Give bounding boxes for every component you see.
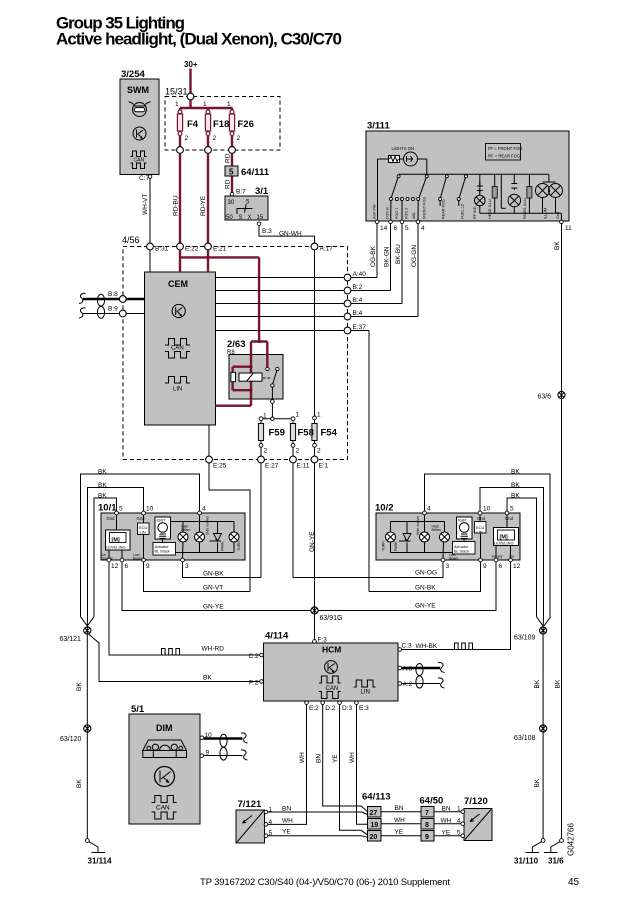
svg-text:1: 1 [227,101,231,108]
svg-text:2: 2 [237,135,241,142]
svg-text:6: 6 [394,225,398,232]
svg-text:15: 15 [257,215,264,221]
svg-text:20: 20 [370,834,378,841]
svg-text:CEM: CEM [168,279,188,289]
svg-text:LIN: LIN [361,690,370,696]
svg-text:F:3: F:3 [318,637,328,644]
svg-text:B:4: B:4 [353,297,363,304]
svg-text:5/1: 5/1 [131,704,145,715]
svg-text:TURN: TURN [382,541,386,551]
svg-text:BK: BK [76,682,83,691]
svg-text:WH: WH [394,817,405,824]
svg-text:BK: BK [534,778,541,787]
svg-text:31/110: 31/110 [514,857,539,866]
svg-text:YE: YE [282,829,291,836]
svg-text:1: 1 [457,806,461,813]
svg-text:DIM: DIM [156,723,173,733]
svg-text:FOG B: FOG B [386,207,390,219]
svg-text:FOG 2: FOG 2 [405,208,409,219]
svg-text:LIGHTS ON: LIGHTS ON [392,146,415,151]
svg-text:G042766: G042766 [567,823,576,856]
svg-text:HEAD ILLU: HEAD ILLU [488,199,492,219]
svg-text:A:17: A:17 [320,246,334,253]
svg-text:E:2: E:2 [309,705,319,712]
svg-text:2: 2 [185,135,189,142]
svg-text:E:37: E:37 [353,324,367,331]
svg-text:BN: BN [395,805,404,812]
svg-text:7/121: 7/121 [238,799,262,810]
svg-text:CAN: CAN [171,346,184,352]
svg-text:Actuator: Actuator [454,545,469,549]
svg-text:4: 4 [421,225,425,232]
svg-text:63/91G: 63/91G [320,615,343,622]
svg-text:3: 3 [185,563,189,570]
svg-text:B:3: B:3 [262,228,272,235]
svg-text:WH: WH [349,752,356,763]
svg-text:50: 50 [226,215,233,221]
svg-text:BN: BN [315,754,322,763]
svg-text:BL Stack: BL Stack [454,550,469,554]
svg-text:F26: F26 [238,119,254,130]
svg-text:9: 9 [425,834,429,841]
svg-text:YE: YE [395,829,404,836]
svg-text:GN-BK: GN-BK [415,585,436,592]
svg-text:Gnd: Gnd [477,516,486,521]
svg-text:LEVELING: LEVELING [494,541,514,546]
svg-text:3/254: 3/254 [121,69,145,80]
svg-text:SWM: SWM [127,85,149,95]
svg-text:2: 2 [296,448,300,455]
svg-text:F4: F4 [187,119,199,130]
svg-text:BK: BK [98,482,107,489]
svg-text:BK: BK [76,779,83,788]
svg-text:TP 39167202 C30/S40 (04-)/V50/: TP 39167202 C30/S40 (04-)/V50/C70 (06-) … [200,877,450,888]
svg-text:BK: BK [511,493,520,500]
svg-text:BK-BU: BK-BU [395,244,402,264]
svg-text:ASF PW: ASF PW [373,204,377,219]
svg-text:GN-WH: GN-WH [279,231,302,238]
svg-text:19: 19 [371,822,379,829]
svg-text:C:3: C:3 [402,643,413,650]
svg-text:B:4: B:4 [353,310,363,317]
svg-text:31/114: 31/114 [88,857,113,866]
svg-text:5: 5 [405,225,409,232]
svg-text:PARK: PARK [394,541,398,551]
svg-text:11: 11 [565,225,572,232]
svg-text:A:40: A:40 [353,271,367,278]
svg-text:ABL: ABL [412,212,416,219]
svg-text:14: 14 [380,225,388,232]
svg-text:64/113: 64/113 [362,792,391,803]
svg-text:E:27: E:27 [265,463,279,470]
svg-text:A:2: A:2 [403,681,413,688]
svg-text:F58: F58 [298,428,314,439]
svg-text:BK: BK [511,482,520,489]
svg-text:WH-RD: WH-RD [202,646,225,653]
svg-text:1: 1 [296,412,300,419]
svg-text:C:2: C:2 [249,653,260,660]
svg-text:5: 5 [229,168,234,177]
svg-text:4: 4 [269,819,273,826]
svg-text:TURN: TURN [237,541,241,551]
svg-text:BL Stack: BL Stack [155,550,170,554]
svg-text:5: 5 [457,830,461,837]
svg-text:RD-BU: RD-BU [173,195,180,216]
svg-text:3/111: 3/111 [367,121,390,132]
svg-text:2/63: 2/63 [227,339,246,350]
svg-text:LIN: LIN [477,530,483,535]
svg-text:GN-YE: GN-YE [415,603,436,610]
svg-text:E:1: E:1 [319,463,329,470]
svg-text:LIN: LIN [173,387,182,393]
svg-text:2: 2 [213,135,217,142]
svg-text:F54: F54 [321,428,338,439]
svg-text:RD-YE: RD-YE [200,195,207,216]
svg-text:BK: BK [511,469,520,476]
svg-text:10/1: 10/1 [98,503,117,514]
svg-text:Actuator: Actuator [155,545,170,549]
svg-text:FUEL LD: FUEL LD [461,203,465,219]
svg-text:B:31: B:31 [155,246,169,253]
svg-text:B:2: B:2 [353,284,363,291]
svg-text:HCM: HCM [322,645,341,655]
svg-text:64/50: 64/50 [420,796,444,807]
svg-text:31/6: 31/6 [548,857,564,866]
svg-text:GN-YE: GN-YE [309,531,316,552]
svg-text:4: 4 [427,506,431,513]
svg-text:6: 6 [125,563,129,570]
svg-text:10: 10 [483,506,491,513]
svg-text:5: 5 [119,506,123,513]
svg-text:63/121: 63/121 [60,636,82,643]
svg-text:GN-OG: GN-OG [415,570,437,577]
svg-text:PARK: PARK [221,541,225,551]
svg-text:WH: WH [299,752,306,763]
svg-text:5: 5 [510,506,514,513]
svg-text:OG-GN: OG-GN [411,245,418,267]
svg-text:S: S [239,215,243,221]
svg-text:RF IND: RF IND [473,206,477,219]
svg-text:64/111: 64/111 [241,167,270,178]
svg-text:8: 8 [425,822,429,829]
svg-text:B:7: B:7 [236,189,246,196]
svg-text:IGBT: IGBT [157,519,167,523]
svg-text:WH: WH [441,818,452,825]
svg-text:1: 1 [175,101,179,108]
svg-text:[M]: [M] [112,538,120,544]
svg-text:9: 9 [483,563,487,570]
svg-text:BK: BK [534,679,541,688]
svg-text:LIN: LIN [140,530,146,535]
svg-text:BK-GN: BK-GN [384,246,391,267]
svg-text:D:3: D:3 [342,705,353,712]
svg-text:63/6: 63/6 [538,394,552,401]
svg-text:7: 7 [425,810,429,817]
svg-text:FRONT FOG: FRONT FOG [423,197,427,219]
svg-text:30+: 30+ [184,60,198,69]
svg-text:4/56: 4/56 [122,235,140,245]
svg-text:BN: BN [282,806,291,813]
svg-text:LEVELING: LEVELING [106,545,126,550]
svg-text:9: 9 [146,563,150,570]
svg-text:WH-VT: WH-VT [142,194,149,215]
svg-text:2: 2 [317,448,321,455]
svg-text:7/120: 7/120 [464,796,488,807]
svg-text:E:11: E:11 [297,463,310,470]
svg-text:E:21: E:21 [213,246,227,253]
svg-text:WH-BK: WH-BK [416,643,438,650]
svg-text:REAR FOG: REAR FOG [442,199,446,219]
svg-text:27: 27 [370,810,378,817]
svg-text:Gnd: Gnd [107,516,116,521]
svg-text:FF = FRONT FOG: FF = FRONT FOG [488,146,522,151]
svg-text:4: 4 [457,818,461,825]
svg-text:RD: RD [225,153,232,163]
svg-text:F18: F18 [213,119,229,130]
svg-text:CAN: CAN [156,805,170,812]
svg-text:GN-VT: GN-VT [203,585,223,592]
svg-text:Beam: Beam [432,528,441,532]
svg-text:1: 1 [317,412,321,419]
svg-text:F59: F59 [269,428,285,439]
svg-text:12: 12 [513,563,521,570]
svg-text:BK: BK [203,675,212,682]
svg-text:4/114: 4/114 [265,631,289,642]
svg-text:63/108: 63/108 [514,735,536,742]
svg-text:1: 1 [203,101,207,108]
svg-text:E:3: E:3 [359,705,369,712]
svg-text:63/120: 63/120 [60,736,82,743]
svg-text:Side marker: Side marker [206,515,210,535]
svg-text:GN-YE: GN-YE [203,604,224,611]
svg-text:GN-BK: GN-BK [203,571,224,578]
svg-text:2: 2 [264,448,268,455]
svg-text:B:9: B:9 [108,306,118,313]
svg-text:D:2: D:2 [325,705,336,712]
svg-text:6: 6 [499,563,503,570]
svg-text:Supply: Supply [492,555,503,559]
svg-text:Active headlight, (Dual Xenon): Active headlight, (Dual Xenon), C30/C70 [56,30,342,49]
svg-text:RD: RD [225,179,232,189]
svg-text:BK: BK [98,469,107,476]
svg-text:BN: BN [442,806,451,813]
svg-text:10/2: 10/2 [375,503,394,514]
svg-text:WH: WH [282,818,293,825]
svg-text:15/31: 15/31 [165,87,188,97]
svg-text:3/1: 3/1 [255,186,269,197]
svg-text:RF = REAR FOG: RF = REAR FOG [488,154,520,159]
svg-text:BK: BK [554,241,561,250]
svg-text:B:8: B:8 [108,291,118,298]
svg-text:PANEL ILLU: PANEL ILLU [523,198,527,219]
svg-text:3: 3 [446,563,450,570]
svg-text:X: X [248,215,252,221]
svg-text:E:22: E:22 [185,246,199,253]
svg-text:F:2: F:2 [249,680,259,687]
svg-text:45: 45 [568,877,580,888]
svg-text:E:25: E:25 [213,463,227,470]
svg-text:Beam: Beam [133,557,142,561]
svg-text:12: 12 [111,563,119,570]
svg-text:Beam: Beam [449,557,458,561]
svg-text:10: 10 [146,506,154,513]
svg-text:BK: BK [555,679,562,688]
svg-text:Beam: Beam [181,528,190,532]
svg-text:Gnd: Gnd [505,516,514,521]
svg-text:Side marker: Side marker [416,515,420,535]
svg-text:FOG 1: FOG 1 [395,208,399,219]
svg-text:4: 4 [202,506,206,513]
svg-text:63/109: 63/109 [514,635,536,642]
svg-text:BK: BK [98,493,107,500]
svg-text:IGBT: IGBT [458,519,468,523]
svg-text:30: 30 [228,200,235,206]
svg-text:OG-BK: OG-BK [370,245,377,267]
svg-text:1: 1 [263,413,267,420]
svg-text:YE: YE [332,754,339,763]
svg-text:YE: YE [442,830,451,837]
